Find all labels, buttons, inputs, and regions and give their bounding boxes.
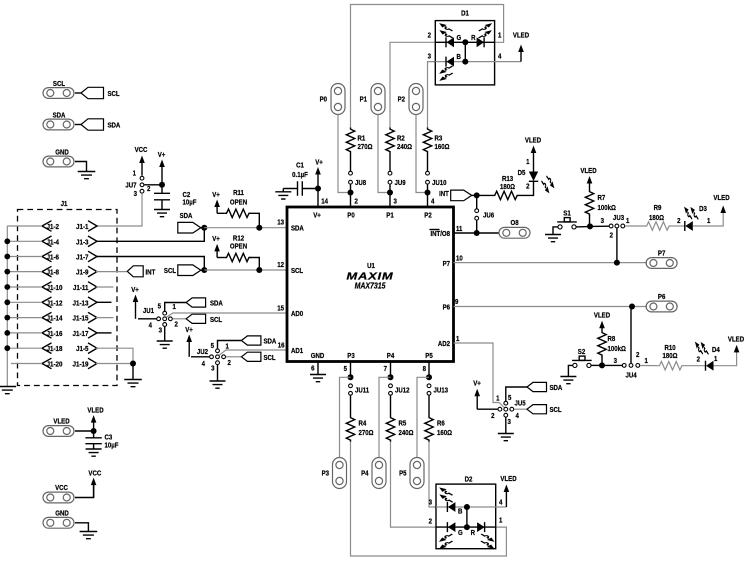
test point P3 pad <box>333 458 347 489</box>
svg-text:V+: V+ <box>158 152 166 159</box>
svg-text:2: 2 <box>147 186 151 193</box>
svg-text:180Ω: 180Ω <box>662 353 677 360</box>
svg-text:V+: V+ <box>315 159 323 166</box>
test point P6 pad <box>646 301 677 312</box>
svg-text:JU12: JU12 <box>395 387 410 394</box>
jumper JU7 <box>140 176 144 180</box>
svg-text:16: 16 <box>278 342 285 349</box>
node R12 junction <box>256 267 262 273</box>
jumper JU2 <box>216 349 220 353</box>
wire JU1 pin3 ground <box>164 327 166 341</box>
svg-text:1: 1 <box>714 356 718 363</box>
svg-text:VLED: VLED <box>713 195 729 202</box>
svg-text:VCC: VCC <box>55 485 68 492</box>
svg-text:100kΩ: 100kΩ <box>598 205 616 212</box>
svg-text:0.1µF: 0.1µF <box>292 172 308 179</box>
jumper JU12 <box>389 384 393 388</box>
LED D1 green <box>446 37 454 47</box>
pin 8 P5 stub <box>428 362 430 378</box>
node VLED C3 junction <box>91 428 97 434</box>
svg-text:P1: P1 <box>386 212 394 219</box>
wire JU3 pin2 to P7 <box>616 228 618 262</box>
svg-text:R4: R4 <box>359 420 367 427</box>
svg-text:V+: V+ <box>212 236 220 243</box>
wire J1-13 stub <box>96 301 112 303</box>
wire D2 pin4 to VLED <box>496 506 507 508</box>
svg-text:2: 2 <box>697 356 701 363</box>
svg-text:J1-14: J1-14 <box>47 315 63 322</box>
svg-text:4: 4 <box>498 53 502 60</box>
wire P5 oval drop <box>417 377 429 457</box>
tag INT <box>127 266 143 277</box>
power V+ arrow <box>159 160 165 185</box>
svg-text:1: 1 <box>499 517 503 524</box>
svg-text:180Ω: 180Ω <box>500 184 515 191</box>
wire JU3 to R9 <box>625 225 645 227</box>
node SDA junction <box>201 225 207 231</box>
wire <box>201 227 205 229</box>
svg-text:GND: GND <box>55 510 69 517</box>
tag SDA net <box>178 222 201 233</box>
svg-text:2: 2 <box>175 321 179 328</box>
test point GND pad <box>43 156 74 167</box>
svg-text:2: 2 <box>428 32 432 39</box>
wire <box>350 184 352 192</box>
svg-text:JU10: JU10 <box>432 180 447 187</box>
svg-text:C1: C1 <box>296 162 304 169</box>
wire <box>389 154 391 172</box>
test point VCC pad <box>43 492 74 503</box>
svg-text:4: 4 <box>499 499 503 506</box>
light arrows D1 R <box>479 23 492 31</box>
wire J1-15 stub <box>96 317 114 319</box>
svg-text:R1: R1 <box>358 135 366 142</box>
svg-text:R11: R11 <box>233 190 244 197</box>
wire INT to R13 <box>477 194 493 196</box>
resistor R6 <box>425 416 433 442</box>
wire SCL to pin12 <box>204 269 287 271</box>
wire J1-17 stub <box>96 332 112 334</box>
wire D3 to VLED <box>693 213 723 226</box>
svg-text:P5: P5 <box>399 470 407 477</box>
node P0 junction <box>348 190 354 196</box>
node SCL junction <box>201 267 207 273</box>
wire S2 to JU4 <box>591 364 600 366</box>
svg-text:P6: P6 <box>658 294 666 301</box>
wire <box>144 184 162 186</box>
capacitor C2 <box>154 185 170 210</box>
svg-text:V+: V+ <box>212 192 220 199</box>
wire D2 row pin2 <box>436 526 496 528</box>
svg-text:JU9: JU9 <box>395 180 406 187</box>
tag SCL JU2 <box>241 352 261 361</box>
pin J1-6 <box>42 251 52 262</box>
node R8 S2 junction <box>599 362 605 368</box>
svg-text:VLED: VLED <box>728 336 744 343</box>
tag SCL JU1 <box>186 314 206 323</box>
wire D4 to VLED <box>714 353 737 366</box>
wire <box>201 269 205 271</box>
svg-text:R10: R10 <box>664 345 675 352</box>
wire D1 pin2 to R2 <box>390 42 435 127</box>
svg-text:3: 3 <box>428 53 432 60</box>
wire AD2 to JU5 <box>454 343 505 408</box>
test point P2 pad <box>409 84 423 115</box>
pin J1-2 <box>42 221 52 232</box>
LED block D2 outline <box>436 484 496 549</box>
resistor R3 <box>423 128 431 154</box>
svg-text:J1-9: J1-9 <box>76 269 89 276</box>
svg-text:J1-13: J1-13 <box>73 300 89 307</box>
power VLED arrow D1 <box>518 45 524 62</box>
svg-text:B: B <box>457 54 462 61</box>
svg-text:P2: P2 <box>424 212 432 219</box>
svg-text:9: 9 <box>455 299 459 306</box>
ground <box>210 381 226 388</box>
LED D1 blue <box>446 57 454 67</box>
ground <box>78 172 96 179</box>
LED D1 red <box>477 37 485 47</box>
power VLED arrow D4 <box>734 345 740 353</box>
light arrows D3 <box>684 207 692 219</box>
svg-text:J1-5: J1-5 <box>76 346 89 353</box>
svg-text:JU4: JU4 <box>625 372 636 379</box>
wire D2 row pin3 <box>436 506 496 508</box>
wire D1 anode link <box>464 42 466 61</box>
resistor R4 <box>346 416 354 442</box>
power VLED arrow D3 <box>720 206 726 214</box>
svg-text:JU8: JU8 <box>355 180 366 187</box>
svg-text:1: 1 <box>526 159 530 166</box>
svg-text:C3: C3 <box>105 434 113 441</box>
resistor R13 <box>493 191 519 199</box>
wire S1 to JU3 <box>576 226 588 228</box>
svg-text:P5: P5 <box>425 353 433 360</box>
wire <box>427 154 429 172</box>
svg-text:R6: R6 <box>437 420 445 427</box>
wire <box>75 92 81 94</box>
wire <box>390 396 392 417</box>
svg-text:P1: P1 <box>360 96 368 103</box>
node D2 anode top <box>464 504 470 510</box>
svg-text:SCL: SCL <box>164 267 176 274</box>
svg-text:VLED: VLED <box>500 476 516 483</box>
node R7 S1 junction <box>587 223 593 229</box>
pin 4 P2 stub <box>427 193 429 208</box>
svg-text:3: 3 <box>508 419 512 426</box>
LED block D1 outline <box>435 21 494 85</box>
svg-text:P2: P2 <box>398 96 406 103</box>
svg-text:100kΩ: 100kΩ <box>608 346 626 353</box>
wire R10 to D4 <box>683 365 705 367</box>
svg-text:2: 2 <box>636 352 640 359</box>
svg-text:15: 15 <box>277 305 284 312</box>
svg-text:3: 3 <box>429 499 433 506</box>
svg-text:JU3: JU3 <box>613 215 624 222</box>
wire R1 to D1 pin1 route <box>351 5 504 128</box>
wire JU1 pin2 to SCL tag <box>173 318 187 320</box>
wire <box>350 396 352 417</box>
LED D4 <box>706 361 714 371</box>
svg-text:J1-8: J1-8 <box>47 269 60 276</box>
svg-text:3: 3 <box>134 191 138 198</box>
svg-text:1: 1 <box>456 336 460 343</box>
power V+ arrow pin14 <box>315 167 321 189</box>
ground <box>80 532 98 539</box>
svg-text:VLED: VLED <box>53 418 69 425</box>
svg-text:R: R <box>471 530 476 537</box>
wire P3 oval drop <box>340 377 351 457</box>
wire D1 row1 <box>435 41 494 43</box>
resistor R1 <box>346 128 354 154</box>
svg-text:2: 2 <box>355 198 359 205</box>
svg-text:J1-10: J1-10 <box>47 285 63 292</box>
svg-text:SCL: SCL <box>550 407 562 414</box>
resistor R12 <box>214 244 220 258</box>
wire D2 anode link <box>466 507 468 527</box>
svg-text:J1-20: J1-20 <box>47 361 63 368</box>
svg-text:R8: R8 <box>608 336 616 343</box>
node P3 junction <box>348 374 354 380</box>
power VLED arrow R8 <box>599 321 605 331</box>
wire <box>427 184 429 192</box>
svg-text:SCL: SCL <box>53 81 65 88</box>
svg-text:14: 14 <box>321 198 328 205</box>
wire S1 ground <box>553 227 558 234</box>
wire <box>477 408 498 410</box>
wire JU5 pin3 ground <box>505 417 507 433</box>
svg-text:O8: O8 <box>510 220 518 227</box>
svg-text:GND: GND <box>55 149 69 156</box>
svg-text:10µF: 10µF <box>105 442 119 449</box>
svg-text:SCL: SCL <box>264 354 276 361</box>
svg-text:SDA: SDA <box>53 112 66 119</box>
svg-text:D3: D3 <box>699 206 707 213</box>
wire <box>350 154 352 172</box>
wire <box>132 364 134 380</box>
resistor R10 <box>658 362 684 370</box>
wire JU2 pin2 to SCL tag <box>226 356 242 358</box>
ground <box>560 377 576 384</box>
wire JU1 AD0 to pin15 <box>166 313 287 317</box>
test point SDA pad <box>43 119 74 130</box>
svg-text:1: 1 <box>496 395 500 402</box>
wire P0 to node <box>338 115 351 193</box>
node R11 junction <box>256 225 262 231</box>
svg-text:JU6: JU6 <box>483 212 494 219</box>
svg-text:SDA: SDA <box>550 385 563 392</box>
svg-text:3: 3 <box>394 198 398 205</box>
svg-text:J1-19: J1-19 <box>73 361 89 368</box>
svg-text:6: 6 <box>311 365 315 372</box>
power VLED arrow D5 <box>531 146 537 154</box>
resistor R2 <box>386 128 394 154</box>
svg-text:12: 12 <box>277 262 284 269</box>
ground <box>157 341 173 348</box>
test point O8 pad <box>499 227 530 238</box>
wire P2 to node <box>416 115 428 193</box>
wire D2 pin3 to R6 <box>429 442 436 508</box>
pin J1-18 <box>42 343 52 354</box>
svg-text:5: 5 <box>158 303 162 310</box>
svg-text:R7: R7 <box>598 195 606 202</box>
jumper JU4 <box>622 364 626 368</box>
svg-text:V+: V+ <box>185 327 193 334</box>
svg-text:2: 2 <box>526 183 530 190</box>
node P2 junction <box>425 190 431 196</box>
svg-text:D1: D1 <box>461 10 469 17</box>
power VLED arrow D2 <box>504 485 510 508</box>
svg-text:INT: INT <box>439 191 449 198</box>
svg-text:P7: P7 <box>443 261 451 268</box>
test point P0 pad <box>331 84 345 115</box>
wire S2 ground <box>568 365 572 376</box>
test point P4 pad <box>372 458 386 489</box>
svg-text:240Ω: 240Ω <box>399 430 414 437</box>
wire JU4 to R10 <box>640 365 658 367</box>
pin 7 P4 stub <box>390 362 392 378</box>
node P4 junction <box>388 374 394 380</box>
svg-text:J1-4: J1-4 <box>47 239 60 246</box>
node D1 anode bottom <box>462 59 468 65</box>
svg-text:VLED: VLED <box>525 137 541 144</box>
svg-text:D2: D2 <box>465 476 473 483</box>
svg-text:J1-6: J1-6 <box>47 254 60 261</box>
wire D2 pin2 to R5 <box>391 442 437 528</box>
wire P4 oval drop <box>379 377 391 457</box>
svg-text:13: 13 <box>277 219 284 226</box>
light arrows D1 G <box>439 23 452 31</box>
svg-text:2: 2 <box>491 413 495 420</box>
svg-text:3: 3 <box>614 358 618 365</box>
pin 3 P1 stub <box>389 193 391 208</box>
ground <box>0 387 16 394</box>
ground <box>282 189 284 192</box>
capacitor C3 <box>85 431 101 449</box>
svg-text:8: 8 <box>423 366 427 373</box>
jumper JU9 <box>388 171 392 175</box>
jumper JU5 <box>504 401 508 405</box>
svg-text:J1-7: J1-7 <box>76 254 89 261</box>
svg-text:JU7: JU7 <box>125 182 136 189</box>
pin J1-14 <box>42 312 52 323</box>
test point VLED pad <box>43 426 74 437</box>
tag SDA <box>81 119 104 130</box>
power VCC arrow <box>139 156 145 176</box>
pin 14 V+ stub <box>317 189 319 208</box>
svg-text:MAX7315: MAX7315 <box>355 281 387 291</box>
svg-text:S2: S2 <box>578 349 586 356</box>
switch S2 <box>572 356 592 367</box>
svg-text:VCC: VCC <box>88 470 101 477</box>
wire D1 pin3 to R3 <box>428 62 436 128</box>
wire J1-11 stub <box>96 286 114 288</box>
wire JU5 pin4 to SCL tag <box>514 408 527 410</box>
svg-text:SDA: SDA <box>180 213 193 220</box>
wire J1-7 to SCL node <box>96 257 204 268</box>
svg-text:JU2: JU2 <box>197 349 208 356</box>
svg-text:OPEN: OPEN <box>230 199 247 206</box>
wire J1-9 to INT tag <box>96 271 127 273</box>
svg-text:J1-15: J1-15 <box>73 315 89 322</box>
wire D1 pin4 to VLED <box>495 61 521 63</box>
svg-text:1: 1 <box>626 218 630 225</box>
light arrows D2 B <box>439 487 452 495</box>
test point SCL pad <box>43 88 74 99</box>
wire <box>75 162 87 172</box>
svg-text:J1-3: J1-3 <box>76 239 89 246</box>
wire JU1 pin5 to SDA tag <box>165 303 186 312</box>
svg-text:2: 2 <box>429 518 433 525</box>
bus GND left vertical <box>6 226 8 386</box>
svg-text:R13: R13 <box>502 176 513 183</box>
svg-text:160Ω: 160Ω <box>437 430 452 437</box>
svg-text:R9: R9 <box>654 205 662 212</box>
svg-text:4: 4 <box>431 198 435 205</box>
svg-text:J1-18: J1-18 <box>47 346 63 353</box>
wire JU2 pin5 to SDA tag <box>218 341 242 349</box>
power VLED arrow <box>91 415 97 431</box>
svg-text:AD1: AD1 <box>291 348 303 355</box>
LED D2 blue <box>447 502 455 512</box>
svg-text:2: 2 <box>677 218 681 225</box>
tag INT net <box>451 190 472 201</box>
tag SDA JU5 <box>527 382 547 391</box>
wire <box>389 184 391 192</box>
svg-text:J1-17: J1-17 <box>73 331 89 338</box>
resistor R5 <box>386 416 394 442</box>
node J1-19 junction <box>130 361 136 367</box>
svg-text:5: 5 <box>508 395 512 402</box>
svg-text:S1: S1 <box>563 210 571 217</box>
LED D2 red <box>477 522 485 532</box>
svg-text:INT: INT <box>146 269 156 276</box>
node D2 anode bottom <box>464 524 470 530</box>
jumper JU13 <box>427 384 431 388</box>
svg-text:AD2: AD2 <box>438 341 450 348</box>
svg-text:P0: P0 <box>347 212 355 219</box>
node JU6 bottom junction <box>474 230 480 236</box>
svg-text:1: 1 <box>173 304 177 311</box>
svg-text:1: 1 <box>133 170 137 177</box>
pin J1-10 <box>42 282 52 293</box>
svg-text:P3: P3 <box>322 470 330 477</box>
svg-text:INT/O8: INT/O8 <box>430 231 450 238</box>
svg-text:C2: C2 <box>183 192 191 199</box>
svg-text:R: R <box>471 35 476 42</box>
test point P5 pad <box>410 458 424 489</box>
svg-text:P4: P4 <box>361 470 369 477</box>
svg-text:SDA: SDA <box>291 225 304 232</box>
ground <box>86 449 102 456</box>
power VLED arrow R7 <box>587 176 593 190</box>
svg-text:B: B <box>458 508 463 515</box>
svg-text:AD0: AD0 <box>291 311 303 318</box>
wire JU5 pin5 to SDA tag <box>506 387 527 401</box>
wire JU2 AD1 to pin16 <box>219 350 287 355</box>
wire P1 to node <box>378 115 390 193</box>
svg-text:2: 2 <box>228 360 232 367</box>
jumper JU6 <box>476 195 478 208</box>
svg-text:2: 2 <box>610 232 614 239</box>
svg-text:J1-16: J1-16 <box>47 331 63 338</box>
tag SCL net <box>178 265 201 276</box>
svg-text:J1: J1 <box>61 201 68 208</box>
svg-text:SCL: SCL <box>108 91 120 98</box>
ground <box>498 434 514 441</box>
pin 6 GND stub + ground <box>317 362 319 375</box>
svg-text:VLED: VLED <box>87 407 103 414</box>
